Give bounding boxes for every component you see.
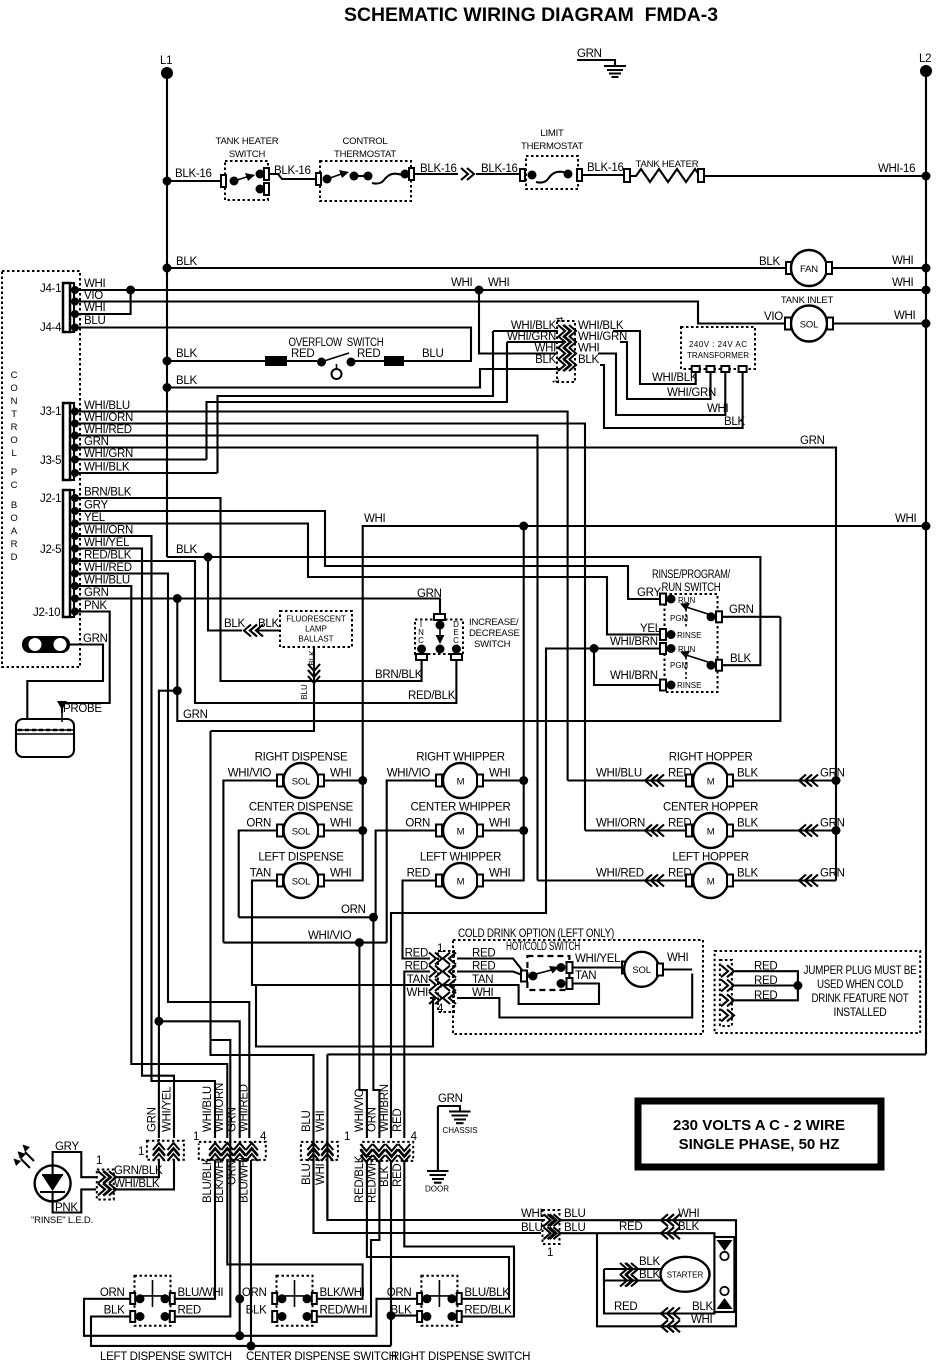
svg-text:GRN: GRN <box>800 435 825 447</box>
svg-text:B: B <box>11 500 17 511</box>
wire WHI left dispense <box>324 879 363 881</box>
svg-text:WHI: WHI <box>678 1208 700 1220</box>
svg-text:BLK: BLK <box>759 256 780 268</box>
svg-text:WHI: WHI <box>691 1314 713 1326</box>
svg-text:WHI: WHI <box>330 818 352 830</box>
svg-text:BLK: BLK <box>639 1269 660 1281</box>
svg-text:LEFT WHIPPER: LEFT WHIPPER <box>420 852 501 864</box>
connector bundle-b <box>193 1131 267 1161</box>
wire WHI tank inlet to L2 <box>833 322 926 324</box>
svg-text:SWITCH: SWITCH <box>229 149 266 160</box>
svg-text:BLK: BLK <box>737 868 758 880</box>
svg-text:WHI/BLK: WHI/BLK <box>114 1178 160 1190</box>
left whipper motor <box>407 852 511 899</box>
wire RED/BLK J2-6 to DEC <box>75 561 456 703</box>
svg-text:GRN: GRN <box>183 709 208 721</box>
svg-text:WHI: WHI <box>895 513 917 525</box>
svg-text:WHI/BLU: WHI/BLU <box>84 400 130 412</box>
svg-text:1: 1 <box>193 1131 199 1143</box>
fluorescent lamp ballast <box>280 611 352 647</box>
svg-text:WHI/GRN: WHI/GRN <box>84 448 133 460</box>
wire GRN J3-4 to hopper grn bus <box>75 448 836 881</box>
wire WHI row <box>457 974 692 1018</box>
svg-text:WHI/VIO: WHI/VIO <box>387 768 431 780</box>
svg-text:WHI: WHI <box>451 277 473 289</box>
svg-text:4: 4 <box>555 317 566 322</box>
right whipper motor <box>387 752 511 799</box>
starter motor <box>661 1257 710 1292</box>
wire bundle-c1 BLU to starter row <box>312 1160 314 1233</box>
svg-text:RED: RED <box>405 948 428 960</box>
svg-text:WHI/YEL: WHI/YEL <box>162 1086 174 1132</box>
svg-text:WHI/VIO: WHI/VIO <box>354 1088 366 1132</box>
wire WHI/BLK J3-6 to primary1 <box>218 331 559 473</box>
voltage note box <box>638 1101 881 1167</box>
svg-text:BLU/WHI: BLU/WHI <box>178 1287 224 1299</box>
svg-text:BLK: BLK <box>578 354 599 366</box>
svg-text:WHI-16: WHI-16 <box>878 163 915 175</box>
svg-text:RIGHT WHIPPER: RIGHT WHIPPER <box>416 752 505 764</box>
svg-text:WHI/BLU: WHI/BLU <box>596 768 642 780</box>
svg-text:THERMOSTAT: THERMOSTAT <box>521 141 583 152</box>
splice BLK chevron <box>244 625 257 637</box>
svg-text:LEFT DISPENSE SWITCH: LEFT DISPENSE SWITCH <box>100 1351 232 1363</box>
wire L1 rail <box>166 73 168 557</box>
svg-text:INCREASE/: INCREASE/ <box>469 617 519 628</box>
wire GRN J2-9 <box>75 599 440 621</box>
svg-text:RINSE/PROGRAM/: RINSE/PROGRAM/ <box>652 569 731 581</box>
svg-text:LAMP: LAMP <box>305 625 327 634</box>
svg-text:SCHEMATIC WIRING DIAGRAM FMDA: SCHEMATIC WIRING DIAGRAM FMDA-3 <box>344 5 718 26</box>
svg-text:GRN: GRN <box>820 768 845 780</box>
wire WHI return to L2 <box>327 1054 926 1220</box>
svg-text:C: C <box>418 636 424 645</box>
wire ORN center dispense left <box>239 831 277 918</box>
connector LED 2-pin <box>96 1155 116 1200</box>
svg-text:WHI: WHI <box>330 768 352 780</box>
svg-text:BLK: BLK <box>535 354 556 366</box>
wire WHI fan to L2 <box>832 267 926 269</box>
wire WHI center dispense <box>324 829 363 831</box>
wire ORN bus <box>84 1299 421 1336</box>
svg-text:BLK: BLK <box>692 1301 713 1313</box>
svg-text:USED WHEN COLD: USED WHEN COLD <box>817 979 903 991</box>
svg-text:M: M <box>457 877 465 888</box>
svg-text:GRN: GRN <box>84 436 109 448</box>
svg-text:TANK HEATER: TANK HEATER <box>636 159 699 170</box>
svg-text:PNK: PNK <box>55 1202 78 1214</box>
svg-text:BLK: BLK <box>176 375 197 387</box>
wire GRY J2-2 to run switch <box>75 511 660 599</box>
tank heater switch TH1 <box>216 136 279 200</box>
svg-text:CENTER HOPPER: CENTER HOPPER <box>663 802 758 814</box>
svg-text:WHI: WHI <box>578 343 600 355</box>
svg-text:RIGHT DISPENSE: RIGHT DISPENSE <box>255 752 348 764</box>
junction L1 overflow row <box>163 357 172 366</box>
splice chevron <box>461 168 474 180</box>
svg-text:WHI: WHI <box>84 278 106 290</box>
svg-text:WHI: WHI <box>315 1110 327 1132</box>
wire bundle-a1 GRN stub <box>158 1139 160 1141</box>
wire BLU to bundle-c1 <box>211 731 542 1233</box>
transformer T1 <box>681 327 755 372</box>
svg-text:TAN: TAN <box>407 974 428 986</box>
svg-text:ORN: ORN <box>341 904 366 916</box>
svg-text:BLK: BLK <box>391 1305 412 1317</box>
svg-text:VIO: VIO <box>84 290 103 302</box>
wire BLK branch to ballast <box>208 557 242 631</box>
svg-text:THERMOSTAT: THERMOSTAT <box>334 149 396 160</box>
control thermostat <box>316 136 414 201</box>
svg-text:FLUORESCENT: FLUORESCENT <box>286 615 346 624</box>
connector starter 2-pin <box>543 1210 561 1259</box>
wire bundle-d4 to right switch RED/BLK <box>404 1161 514 1317</box>
svg-text:M: M <box>707 827 715 838</box>
svg-text:BLU: BLU <box>521 1222 542 1234</box>
ground stud control board <box>22 636 70 653</box>
svg-text:230 VOLTS A C - 2 WIRE: 230 VOLTS A C - 2 WIRE <box>673 1117 845 1134</box>
svg-text:RED: RED <box>407 868 430 880</box>
overflow switch <box>167 337 443 379</box>
svg-text:DECREASE: DECREASE <box>469 628 520 639</box>
wire WHI/ORN J3-2 to center hopper <box>75 424 585 831</box>
svg-text:RED/BLK: RED/BLK <box>84 550 132 562</box>
svg-text:BLK-16: BLK-16 <box>175 168 212 180</box>
svg-text:BLU: BLU <box>422 348 443 360</box>
svg-text:WHI: WHI <box>707 403 729 415</box>
svg-text:SOL: SOL <box>292 777 310 788</box>
svg-text:BLU: BLU <box>300 684 309 700</box>
control board vertical label <box>10 370 18 563</box>
control board dotted outline <box>2 271 80 667</box>
svg-text:SWITCH: SWITCH <box>474 639 511 650</box>
svg-text:BLK: BLK <box>379 1166 391 1187</box>
svg-text:RED: RED <box>291 348 314 360</box>
svg-text:SINGLE PHASE, 50 HZ: SINGLE PHASE, 50 HZ <box>679 1136 840 1153</box>
svg-text:WHI/BLK: WHI/BLK <box>84 462 130 474</box>
svg-text:N: N <box>11 396 18 407</box>
svg-text:BALLAST: BALLAST <box>298 635 333 644</box>
svg-text:WHI/ORN: WHI/ORN <box>596 818 645 830</box>
svg-text:ORN: ORN <box>367 1107 379 1132</box>
svg-text:ORN: ORN <box>100 1287 125 1299</box>
svg-text:RED: RED <box>178 1305 201 1317</box>
svg-text:C: C <box>11 370 18 381</box>
svg-text:WHI: WHI <box>489 868 511 880</box>
svg-text:RED: RED <box>392 1109 404 1132</box>
svg-text:STARTER: STARTER <box>667 1271 704 1280</box>
wire WHI starter row1 <box>560 1220 736 1326</box>
svg-text:GRY: GRY <box>637 587 661 599</box>
svg-text:TAN: TAN <box>250 868 271 880</box>
svg-text:WHI: WHI <box>488 277 510 289</box>
junction WHI mid <box>475 286 484 295</box>
ground GRN top <box>577 48 626 77</box>
right dispense switch <box>387 1276 530 1363</box>
svg-text:BLK: BLK <box>724 416 745 428</box>
wire TAN row <box>441 985 457 988</box>
svg-text:J2-5: J2-5 <box>40 544 61 556</box>
svg-text:RINSE: RINSE <box>677 681 701 690</box>
svg-text:WHI: WHI <box>892 255 914 267</box>
wire ORN center whipper left <box>376 831 436 918</box>
wire to door ground <box>437 1106 439 1171</box>
svg-text:WHI/YEL: WHI/YEL <box>84 537 130 549</box>
svg-text:WHI: WHI <box>330 868 352 880</box>
svg-text:M: M <box>707 877 715 888</box>
svg-text:GRN/BLK: GRN/BLK <box>114 1165 163 1177</box>
wire RED left whipper left <box>403 881 437 959</box>
svg-text:SOL: SOL <box>800 320 818 331</box>
svg-text:PNK: PNK <box>84 600 107 612</box>
wire WHI/BLK primary1 to transformer <box>613 331 696 384</box>
svg-text:WHI: WHI <box>667 952 689 964</box>
svg-text:DRINK FEATURE NOT: DRINK FEATURE NOT <box>812 993 909 1005</box>
svg-text:J2-10: J2-10 <box>33 607 60 619</box>
wire WHI/VIO right whipper left <box>387 781 436 943</box>
wire WHI/RED J2-7 to bundle-b4 <box>75 574 249 1139</box>
svg-text:J4-4: J4-4 <box>40 322 62 334</box>
hot/cold switch <box>506 941 580 990</box>
svg-text:LIMIT: LIMIT <box>540 128 564 139</box>
svg-text:240V : 24V AC: 240V : 24V AC <box>689 340 747 349</box>
svg-text:INSTALLED: INSTALLED <box>834 1007 887 1019</box>
wire WHI/VIO right dispense left <box>223 781 277 943</box>
wire WHI/RED J3-3 to left hopper <box>75 436 538 881</box>
svg-text:RED: RED <box>392 1164 404 1187</box>
svg-text:GRN: GRN <box>577 48 602 60</box>
svg-text:WHI/GRN: WHI/GRN <box>667 387 716 399</box>
wire bundle-b2 to center switch BLK/WHI <box>227 1160 362 1299</box>
svg-text:WHI: WHI <box>892 277 914 289</box>
wire WHI/GRN J3-5 riser <box>75 458 207 460</box>
svg-text:WHI/RED: WHI/RED <box>596 868 644 880</box>
cold drink option box <box>453 928 703 1034</box>
junction L1 blk row <box>163 383 172 392</box>
wire RED starter bottom row <box>604 1269 714 1314</box>
svg-text:BLK: BLK <box>176 544 197 556</box>
left dispense solenoid <box>250 852 352 899</box>
ground door <box>425 1171 449 1194</box>
svg-text:WHI/RED: WHI/RED <box>84 424 132 436</box>
svg-text:SOL: SOL <box>632 965 650 976</box>
jumper plug box <box>715 951 921 1033</box>
rinse LED <box>14 1141 97 1226</box>
svg-text:YEL: YEL <box>84 512 106 524</box>
svg-text:ORN: ORN <box>387 1287 412 1299</box>
svg-text:GRN: GRN <box>729 604 754 616</box>
center dispense switch <box>242 1276 397 1363</box>
rinse/program/run switch <box>652 569 731 692</box>
svg-text:TRANSFORMER: TRANSFORMER <box>687 351 749 360</box>
svg-text:BLK: BLK <box>678 1221 699 1233</box>
wire bundle-c2 WHI to starter row <box>326 1160 328 1220</box>
svg-text:BLU/BLK: BLU/BLK <box>202 1157 214 1203</box>
svg-text:GRN: GRN <box>438 1093 463 1105</box>
svg-text:BLK-16: BLK-16 <box>587 162 624 174</box>
svg-text:RIGHT DISPENSE SWITCH: RIGHT DISPENSE SWITCH <box>391 1351 530 1363</box>
connector bundle-d <box>344 1131 418 1162</box>
svg-text:O: O <box>10 513 17 524</box>
wire left switch RED riser <box>171 1040 230 1317</box>
svg-text:L1: L1 <box>160 55 172 67</box>
svg-text:PROBE: PROBE <box>63 703 102 715</box>
svg-text:WHI/ORN: WHI/ORN <box>84 525 133 537</box>
wire WHI primary3 to row WHI <box>479 290 558 354</box>
svg-text:LEFT HOPPER: LEFT HOPPER <box>672 852 748 864</box>
svg-text:BLK: BLK <box>224 618 245 630</box>
wire RED2 into switch <box>457 972 521 975</box>
svg-text:"RINSE" L.E.D.: "RINSE" L.E.D. <box>31 1215 93 1226</box>
svg-text:WHI/ORN: WHI/ORN <box>214 1083 226 1132</box>
svg-text:WHI/VIO: WHI/VIO <box>228 768 272 780</box>
svg-text:GRN: GRN <box>820 868 845 880</box>
junction WHI J4 rows <box>126 286 135 295</box>
svg-text:CHASSIS: CHASSIS <box>442 1126 477 1135</box>
svg-text:TAN: TAN <box>575 970 596 982</box>
svg-text:RIGHT HOPPER: RIGHT HOPPER <box>669 752 753 764</box>
svg-text:WHI/BRN: WHI/BRN <box>379 1084 391 1132</box>
svg-text:GRN: GRN <box>820 818 845 830</box>
svg-text:GRN: GRN <box>417 588 442 600</box>
svg-text:DOOR: DOOR <box>425 1185 449 1194</box>
svg-text:C: C <box>11 480 18 491</box>
connector cold drink 4-pin <box>429 943 456 1015</box>
svg-text:BLK: BLK <box>104 1305 125 1317</box>
wire WHI/ORN J2-4 to bundle-b2 <box>75 536 215 1138</box>
svg-text:WHI/VIO: WHI/VIO <box>308 930 352 942</box>
wire WHI primary3 to transformer <box>598 354 725 416</box>
wire WHI/BLU J3-1 to right hopper <box>75 412 568 781</box>
svg-text:WHI/RED: WHI/RED <box>84 562 132 574</box>
svg-text:YEL: YEL <box>640 623 662 635</box>
svg-text:RED/WHI: RED/WHI <box>367 1155 379 1203</box>
svg-text:ORN: ORN <box>242 1287 267 1299</box>
svg-text:D: D <box>11 552 18 563</box>
svg-text:O: O <box>10 383 17 394</box>
connector bundle-a <box>138 1141 184 1161</box>
wire bundle-b4 to BLK bus <box>250 1160 252 1346</box>
svg-text:WHI: WHI <box>521 1208 543 1220</box>
svg-text:WHI/GRN: WHI/GRN <box>578 331 627 343</box>
svg-text:TANK HEATER: TANK HEATER <box>216 136 279 147</box>
svg-text:P: P <box>11 467 17 478</box>
svg-text:J2-1: J2-1 <box>40 493 61 505</box>
center whipper motor <box>405 802 510 849</box>
wire L2 rail <box>925 71 927 1054</box>
right dispense solenoid <box>228 752 352 799</box>
svg-text:C: C <box>453 636 459 645</box>
center hopper motor <box>585 802 845 849</box>
svg-text:RED/BLK: RED/BLK <box>354 1155 366 1203</box>
wire WHI/BLK J3-6 riser <box>75 472 218 474</box>
svg-text:LEFT DISPENSE: LEFT DISPENSE <box>258 852 344 864</box>
wire WHI/BLU J2-8 to bundle-b1 <box>75 586 227 1138</box>
svg-text:BLK: BLK <box>639 1256 660 1268</box>
svg-text:CENTER WHIPPER: CENTER WHIPPER <box>411 802 511 814</box>
svg-text:WHI/YEL: WHI/YEL <box>575 953 621 965</box>
svg-text:R: R <box>11 539 18 550</box>
svg-text:BLK: BLK <box>258 618 279 630</box>
wire RED1 into switch <box>457 959 524 973</box>
svg-text:WHI: WHI <box>84 302 106 314</box>
svg-text:WHI: WHI <box>489 768 511 780</box>
svg-text:ORN: ORN <box>405 818 430 830</box>
svg-text:R: R <box>11 422 18 433</box>
junction L1 heater row <box>163 177 172 186</box>
svg-text:BLU: BLU <box>84 315 105 327</box>
svg-text:1: 1 <box>96 1155 102 1167</box>
svg-text:RED/BLK: RED/BLK <box>464 1305 512 1317</box>
svg-text:BLU: BLU <box>301 1111 313 1132</box>
wire BLU starter row2 <box>560 1233 714 1237</box>
wire jumper RED bracket <box>735 971 798 1000</box>
wire BLK primary4 to transformer <box>600 365 743 428</box>
wire GRN branch down <box>159 599 781 1022</box>
svg-text:WHI/BLK: WHI/BLK <box>652 372 698 384</box>
svg-text:1: 1 <box>138 1146 144 1158</box>
svg-text:VIO: VIO <box>764 311 783 323</box>
connector J4 <box>40 283 79 334</box>
svg-text:WHI: WHI <box>364 513 386 525</box>
svg-text:L2: L2 <box>919 53 931 65</box>
wire YEL J2-3 to run switch <box>75 524 660 635</box>
wire TAN riser continue <box>256 985 433 1047</box>
svg-text:GRY: GRY <box>84 500 108 512</box>
junction GRN hopper bus <box>832 776 841 785</box>
connector J3 <box>40 403 79 480</box>
svg-text:BLK: BLK <box>737 768 758 780</box>
svg-text:RED/WHI: RED/WHI <box>320 1305 368 1317</box>
center dispense solenoid <box>246 802 353 849</box>
svg-text:1: 1 <box>551 379 562 384</box>
svg-text:O: O <box>10 435 17 446</box>
svg-text:BRN/BLK: BRN/BLK <box>84 487 132 499</box>
starter relay box <box>714 1237 734 1312</box>
svg-text:WHI/BRN: WHI/BRN <box>610 636 658 648</box>
svg-text:BLK: BLK <box>308 650 317 666</box>
junction WHI row to blk run <box>519 522 528 531</box>
wire bundle-d3 to right switch BLK + bus <box>91 1161 391 1346</box>
svg-text:BLU: BLU <box>564 1208 585 1220</box>
svg-text:RED: RED <box>614 1301 637 1313</box>
svg-text:COLD DRINK OPTION (LEFT ONLY): COLD DRINK OPTION (LEFT ONLY) <box>458 928 614 940</box>
wire RED2 to bundle-d4 <box>404 972 430 1139</box>
svg-text:BLU: BLU <box>301 1164 313 1185</box>
svg-text:BLK/WHI: BLK/WHI <box>320 1287 365 1299</box>
connector bundle-c <box>301 1142 338 1161</box>
svg-text:CENTER DISPENSE: CENTER DISPENSE <box>249 802 354 814</box>
wire bundle-b1 to left switch BLU/WHI <box>171 1160 215 1299</box>
svg-text:A: A <box>11 526 18 537</box>
wire BRN/BLK J2-1 to INC <box>75 498 422 681</box>
svg-text:1: 1 <box>547 1247 553 1259</box>
probe <box>16 703 102 757</box>
svg-text:J4-1: J4-1 <box>40 283 61 295</box>
tank inlet solenoid <box>781 295 834 342</box>
increase/decrease switch <box>415 614 520 660</box>
svg-text:WHI: WHI <box>489 818 511 830</box>
svg-text:BRN/BLK: BRN/BLK <box>375 669 423 681</box>
svg-text:T: T <box>11 409 17 420</box>
svg-text:ORN: ORN <box>246 818 271 830</box>
svg-text:RED/BLK: RED/BLK <box>408 690 456 702</box>
svg-text:JUMPER PLUG MUST BE: JUMPER PLUG MUST BE <box>804 965 918 977</box>
svg-text:L: L <box>11 448 16 459</box>
wire right switch BLK stub <box>391 1315 421 1317</box>
wire WHI/GRN primary2 to transformer <box>620 342 711 399</box>
cold drink solenoid <box>622 952 663 987</box>
